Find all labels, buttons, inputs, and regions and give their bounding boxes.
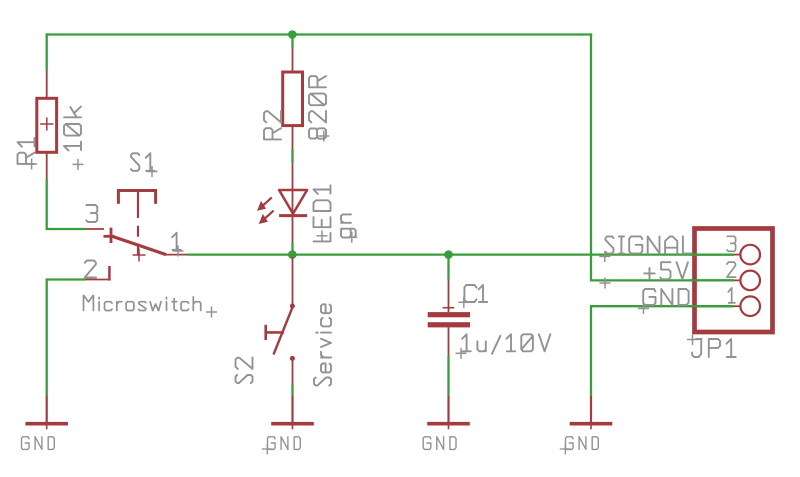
label GND text (C1)	[423, 437, 456, 450]
origin cross C1 value	[456, 348, 467, 359]
pin number 1 of S1	[172, 233, 181, 250]
diode LED1	[258, 163, 307, 242]
pin number 1 of JP1	[728, 288, 735, 303]
wire C1 top drop	[447, 255, 449, 280]
wire LED to junction	[291, 243, 293, 256]
net label +5V	[644, 262, 688, 279]
origin cross S1 text	[147, 166, 158, 177]
switch S1 microswitch	[86, 191, 188, 281]
ground symbol C1	[427, 396, 470, 429]
net label SIGNAL	[605, 236, 691, 253]
wire SIGNAL net	[187, 253, 734, 255]
wire S2 bottom to GND	[291, 384, 293, 396]
pin number 2 of S1	[85, 261, 96, 278]
wire right GND drop	[590, 306, 592, 396]
wire R2-LED link	[291, 150, 293, 164]
wire R1 top drop	[46, 33, 48, 70]
node junction SIGNAL / LED / S2	[288, 250, 297, 259]
ground symbol S2	[271, 396, 314, 429]
origin cross R1 name	[26, 159, 37, 170]
origin cross C1 name	[458, 297, 469, 308]
origin cross LED1 name	[317, 230, 328, 241]
wire GND overlay at JP1 edge	[690, 305, 734, 307]
label S2 name	[236, 358, 253, 384]
ground symbol left / S1 pin2	[25, 396, 68, 429]
label GND text (left / S1 pin2)	[22, 437, 55, 450]
net label GND	[643, 289, 688, 305]
wire right +5V drop	[590, 33, 592, 280]
wire S1 pin2 down to GND	[46, 280, 48, 397]
resistor R1	[37, 71, 57, 179]
origin cross Microswitch text	[206, 307, 217, 318]
origin cross LED1 value	[346, 232, 357, 243]
wire +5V to JP1 pin2	[590, 279, 734, 281]
label S1 value Microswitch	[84, 296, 201, 311]
capacitor C1	[428, 280, 470, 357]
label GND text (S2)	[268, 437, 301, 450]
pin number 3 of JP1	[727, 236, 736, 251]
pin number 2 of JP1	[727, 262, 736, 277]
label GND text (right / JP1)	[566, 437, 599, 450]
label S2 value Service	[314, 304, 331, 385]
connector JP1	[695, 229, 773, 333]
wire S1 pin3 horizontal	[46, 228, 86, 230]
label R2 name	[264, 111, 281, 139]
wire R2 top drop	[291, 33, 293, 48]
origin cross JP1 name	[687, 334, 698, 345]
switch S2 Service	[266, 257, 295, 384]
wire SIGNAL overlay at JP1 edge	[690, 253, 734, 255]
label C1 name	[464, 285, 487, 302]
wire +5V overlay at JP1 edge	[690, 279, 734, 281]
label R2 value 820R	[309, 76, 326, 139]
label R1 value 10k	[64, 107, 81, 151]
label S1 name	[131, 153, 155, 171]
label R1 name	[18, 138, 35, 164]
origin cross R1 value	[73, 159, 84, 170]
origin cross GND text (right / JP1)	[560, 444, 571, 455]
origin cross SIGNAL label	[599, 251, 610, 262]
label C1 value 1u/10V	[462, 334, 550, 354]
wire C1 bottom to GND	[447, 356, 449, 396]
ground symbol right / JP1	[570, 396, 613, 429]
pin number 3 of S1	[86, 205, 97, 222]
label LED1 value gn	[341, 214, 356, 237]
wire top rail +5V net	[46, 33, 593, 35]
label JP1 name	[692, 339, 736, 357]
label LED1 name	[314, 185, 331, 241]
origin cross pin 1 label	[173, 246, 184, 257]
origin cross R2 value	[318, 131, 329, 142]
origin cross GND label	[638, 303, 649, 314]
wire S1 pin2 horizontal	[46, 278, 86, 280]
origin cross +5V label	[600, 278, 611, 289]
node junction top rail / R2	[288, 30, 297, 39]
wire GND to JP1 pin1	[590, 305, 734, 307]
node junction SIGNAL / C1	[444, 250, 453, 259]
origin cross GND text (S2)	[262, 444, 273, 455]
resistor R2	[283, 48, 303, 150]
wire R1 bottom to S1 pin3 vertical	[46, 178, 48, 229]
